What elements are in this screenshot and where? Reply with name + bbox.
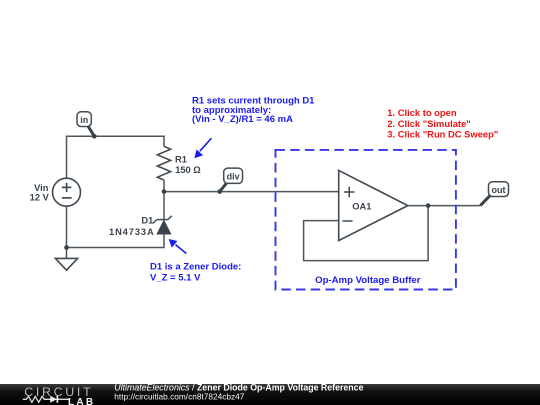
svg-text:12 V: 12 V: [30, 193, 50, 203]
svg-text:1. Click to open: 1. Click to open: [387, 107, 457, 118]
ground: [55, 248, 77, 271]
svg-text:1N4733A: 1N4733A: [109, 227, 155, 237]
resistor R1: [157, 146, 170, 180]
wire: left vertical (Vin bottom lead): [66, 206, 68, 247]
junction dot (output feedback): [426, 203, 431, 208]
wire: output: [408, 205, 481, 207]
svg-text:D1: D1: [141, 215, 153, 225]
junction node div: [162, 189, 167, 194]
voltage source V1 (Vin): [53, 178, 81, 206]
junction dot (in flag): [92, 134, 97, 139]
svg-text:3. Click "Run DC Sweep": 3. Click "Run DC Sweep": [387, 128, 498, 139]
footer logo squiggle: [23, 396, 71, 402]
svg-text:OA1: OA1: [352, 201, 371, 211]
annotation text R1: [192, 95, 315, 125]
svg-text:http://circuitlab.com/cn8t7824: http://circuitlab.com/cn8t7824cbz47: [114, 392, 244, 402]
wire: bottom horizontal: [67, 247, 165, 249]
wire: div horizontal to op-amp: [164, 191, 339, 193]
svg-text:Op-Amp Voltage Buffer: Op-Amp Voltage Buffer: [315, 275, 421, 286]
wire: feedback minus stub: [304, 206, 429, 261]
diode D1 zener: [153, 216, 172, 234]
wire: R1 top lead: [163, 136, 165, 147]
svg-text:V_Z = 5.1 V: V_Z = 5.1 V: [150, 273, 201, 284]
wire: top horizontal: [66, 135, 165, 137]
svg-text:(Vin - V_Z)/R1 = 46 mA: (Vin - V_Z)/R1 = 46 mA: [192, 114, 293, 125]
annotation text D1: [150, 262, 241, 284]
junction dot (div flag): [217, 189, 222, 194]
svg-text:2. Click "Simulate": 2. Click "Simulate": [387, 118, 470, 129]
annotation arrow to D1: [169, 239, 187, 254]
svg-text:R1: R1: [175, 154, 187, 164]
wire: left vertical (Vin top lead): [66, 136, 68, 178]
footer bar: [0, 384, 540, 405]
node flag div: [220, 168, 243, 192]
wire: R1 bottom lead: [163, 180, 165, 192]
wire: node div vertical to D1: [163, 192, 165, 220]
svg-text:Vin: Vin: [34, 183, 49, 193]
svg-text:150 Ω: 150 Ω: [175, 165, 201, 175]
dashed annotation box: [276, 150, 456, 290]
svg-text:div: div: [227, 171, 240, 181]
annotation text steps (red): [387, 107, 498, 140]
node flag in: [77, 112, 94, 137]
junction dot (ground node): [64, 245, 69, 250]
op-amp OA1: [339, 170, 408, 240]
svg-text:D1 is a Zener Diode:: D1 is a Zener Diode:: [150, 262, 241, 273]
annotation arrow to R1: [194, 138, 211, 158]
svg-text:LAB: LAB: [68, 397, 95, 405]
footer logo diode: [50, 396, 57, 403]
svg-text:out: out: [492, 185, 506, 195]
svg-text:in: in: [80, 115, 88, 125]
node flag out: [480, 182, 508, 206]
wire: D1 bottom lead: [163, 234, 165, 248]
